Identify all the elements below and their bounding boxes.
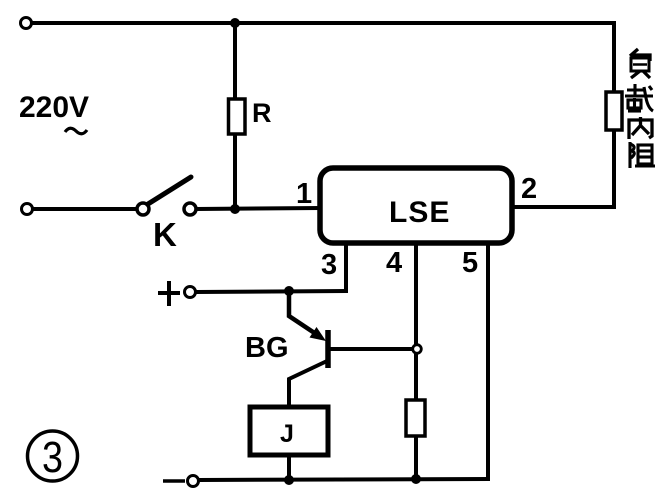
terminal plus <box>185 287 196 298</box>
label minus stub <box>163 479 185 483</box>
wire pin5 vertical <box>486 243 490 481</box>
wire right vertical <box>612 21 616 209</box>
resistor R <box>229 99 246 134</box>
svg-text:3: 3 <box>321 249 337 281</box>
label 220V <box>19 91 89 134</box>
label 载 <box>625 84 653 111</box>
wire plus horizontal <box>196 291 348 292</box>
junction bottom relay <box>284 475 294 485</box>
IC U1 LSE body <box>320 168 512 243</box>
switch K <box>137 177 196 215</box>
svg-text:K: K <box>153 216 177 253</box>
resistor bottom <box>406 400 425 436</box>
wire top horizontal <box>31 21 614 25</box>
svg-text:1: 1 <box>296 178 312 210</box>
svg-text:5: 5 <box>462 247 478 279</box>
node on pin4 wire <box>413 345 422 354</box>
svg-text:J: J <box>280 420 294 448</box>
wire bottom horizontal <box>199 479 490 480</box>
wire collector to relay to bottom <box>287 379 291 481</box>
wire pin3 vertical <box>344 243 348 293</box>
terminal top-left <box>21 18 32 29</box>
junction mid <box>230 204 240 214</box>
svg-text:LSE: LSE <box>389 196 450 229</box>
label plus <box>158 281 180 306</box>
relay J body <box>250 407 328 455</box>
wire pin2 <box>512 205 616 209</box>
terminal bottom-left <box>188 476 199 487</box>
label 内 <box>629 117 652 139</box>
svg-text:3: 3 <box>42 433 63 482</box>
resistor load <box>606 92 622 130</box>
figure number 3 <box>28 431 78 482</box>
svg-text:220V: 220V <box>19 91 89 124</box>
junction plus <box>284 286 294 296</box>
label 负 <box>630 49 650 78</box>
wire mid-left <box>33 207 137 211</box>
junction top <box>230 18 240 28</box>
label 阻 <box>630 142 655 168</box>
svg-text:2: 2 <box>521 173 537 205</box>
wire mid to LSE pin1 <box>196 208 322 209</box>
terminal mid-left <box>22 204 33 215</box>
svg-text:R: R <box>252 98 272 128</box>
svg-text:BG: BG <box>245 332 289 364</box>
wire R vertical <box>233 23 237 209</box>
svg-text:4: 4 <box>386 247 402 279</box>
wire pin4 vertical <box>414 243 418 479</box>
junction bottom pin4 <box>411 474 421 484</box>
transistor Q1 BG <box>289 292 413 382</box>
